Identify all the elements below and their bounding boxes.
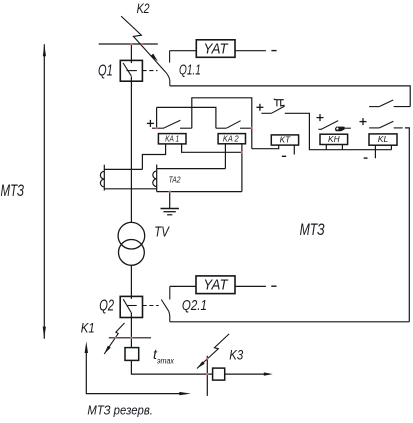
wire KL right down right edge bbox=[405, 128, 409, 322]
feeder wire TV to Q2 bbox=[130, 265, 132, 299]
wire KT right stub minus bbox=[293, 145, 295, 154]
svg-text:YAT: YAT bbox=[204, 41, 229, 57]
svg-text:МТЗ: МТЗ bbox=[1, 182, 25, 200]
fault arrow K1 bbox=[104, 323, 124, 354]
ground bbox=[161, 192, 179, 215]
wire TA1 bottom bbox=[104, 188, 156, 190]
wire TA2 bottom return bbox=[157, 191, 242, 193]
wire TA2 top bbox=[157, 168, 226, 170]
minus terminal KT bbox=[282, 155, 286, 157]
relay coil KL bbox=[369, 134, 397, 145]
svg-text:KA 2: KA 2 bbox=[223, 133, 239, 143]
svg-text:МТЗ: МТЗ bbox=[300, 221, 325, 239]
voltage transformer TV bbox=[118, 222, 145, 265]
svg-text:KA 1: KA 1 bbox=[165, 133, 179, 143]
fault arrow K2 bbox=[121, 16, 166, 72]
minus terminal YAT2 bbox=[271, 285, 276, 287]
feeder wire bottom bbox=[131, 360, 212, 374]
time relay coil KT bbox=[271, 135, 298, 145]
svg-text:KT: KT bbox=[280, 135, 291, 145]
wire load to arrow bbox=[225, 373, 265, 375]
mech link Q2 dashes bbox=[143, 305, 159, 307]
feeder wire Q1 to TV bbox=[130, 76, 132, 222]
relay coil KA2 bbox=[218, 133, 245, 144]
relay coil KA1 bbox=[158, 133, 186, 144]
wire Q1.1 down right edge bbox=[170, 86, 410, 107]
wire KA1 left up bbox=[156, 107, 158, 128]
branch wire K3 bbox=[206, 356, 208, 396]
label t max bbox=[153, 346, 175, 366]
signal relay coil KH bbox=[320, 134, 348, 145]
minus terminal YAT1 bbox=[271, 50, 276, 52]
plus node KT bbox=[256, 104, 263, 111]
wire KT left stub bbox=[252, 145, 279, 149]
aux contact Q2.1 bbox=[161, 286, 170, 321]
svg-text:TV: TV bbox=[154, 224, 170, 241]
wire KA1 left stub to TA1 bbox=[142, 144, 165, 170]
time element box t bbox=[125, 348, 139, 361]
svg-text:KH: KH bbox=[328, 134, 340, 144]
trip coil YAT1 bbox=[196, 40, 235, 58]
svg-text:Q1: Q1 bbox=[98, 63, 113, 80]
backup zone arrow bbox=[85, 341, 191, 395]
mech link Q1 dashes bbox=[142, 70, 157, 72]
svg-text:KL: KL bbox=[378, 134, 389, 144]
wire YAT1 to minus bbox=[235, 50, 266, 52]
feeder wire Q2 down bbox=[130, 313, 132, 348]
feeder wire top bbox=[130, 44, 132, 63]
breaker Q2 bbox=[120, 296, 142, 317]
wire Q1.1 to YAT1 bbox=[170, 50, 197, 52]
busbar bbox=[99, 43, 158, 45]
svg-text:YAT: YAT bbox=[203, 278, 228, 294]
svg-text:K1: K1 bbox=[81, 320, 95, 336]
load box bbox=[213, 368, 225, 380]
svg-text:K3: K3 bbox=[229, 346, 243, 362]
signal relay contact KH1 bbox=[318, 121, 351, 132]
wire KA1 right stub to KA2 stub bbox=[182, 144, 242, 152]
zone measure arrow MTZ1 bbox=[43, 44, 46, 339]
contact KL feed bbox=[369, 121, 403, 128]
wire TA1 top bbox=[104, 168, 142, 170]
wire KA2 left stub bbox=[224, 144, 226, 169]
current transformer TA2 bbox=[153, 165, 157, 192]
svg-text:Q1.1: Q1.1 bbox=[179, 61, 201, 78]
wire KT1 to coils return bbox=[285, 113, 392, 149]
plus node KA bbox=[147, 120, 154, 127]
contact KA2 bbox=[216, 121, 252, 129]
contact KL1 top right bbox=[369, 100, 410, 107]
time relay contact KT1 bbox=[261, 99, 284, 114]
plus node KL bbox=[360, 118, 367, 125]
aux contact Q1.1 bbox=[166, 51, 170, 86]
trip coil YAT2 bbox=[196, 276, 235, 294]
wire KA2 right stub down bbox=[241, 144, 243, 192]
svg-text:МТЗ резерв.: МТЗ резерв. bbox=[87, 403, 152, 417]
svg-text:Q2.1: Q2.1 bbox=[182, 297, 207, 314]
minus terminal KL bbox=[364, 157, 368, 159]
svg-text:эmax: эmax bbox=[157, 357, 175, 366]
wire Q2.1 bottom to right edge bbox=[170, 321, 409, 323]
wire KL stubs bbox=[375, 145, 391, 158]
svg-text:K2: K2 bbox=[137, 0, 150, 16]
junction nodes bbox=[114, 43, 253, 375]
plus node KH bbox=[317, 114, 324, 121]
current transformer TA1 bbox=[100, 165, 104, 191]
stub line at K1 bbox=[109, 337, 151, 339]
wire Q2.1 to YAT2 bbox=[170, 285, 196, 287]
wire to KA2 left bbox=[157, 107, 216, 128]
fault arrow K3 bbox=[197, 334, 229, 369]
wire YAT2 to minus bbox=[235, 285, 266, 287]
svg-text:TA2: TA2 bbox=[169, 175, 181, 185]
wire KA1 right to KT coil bbox=[192, 98, 252, 149]
breaker Q1 bbox=[120, 60, 142, 81]
svg-text:Q2: Q2 bbox=[99, 298, 114, 315]
wire KH stubs bbox=[326, 145, 342, 150]
contact KA1 bbox=[152, 120, 192, 128]
